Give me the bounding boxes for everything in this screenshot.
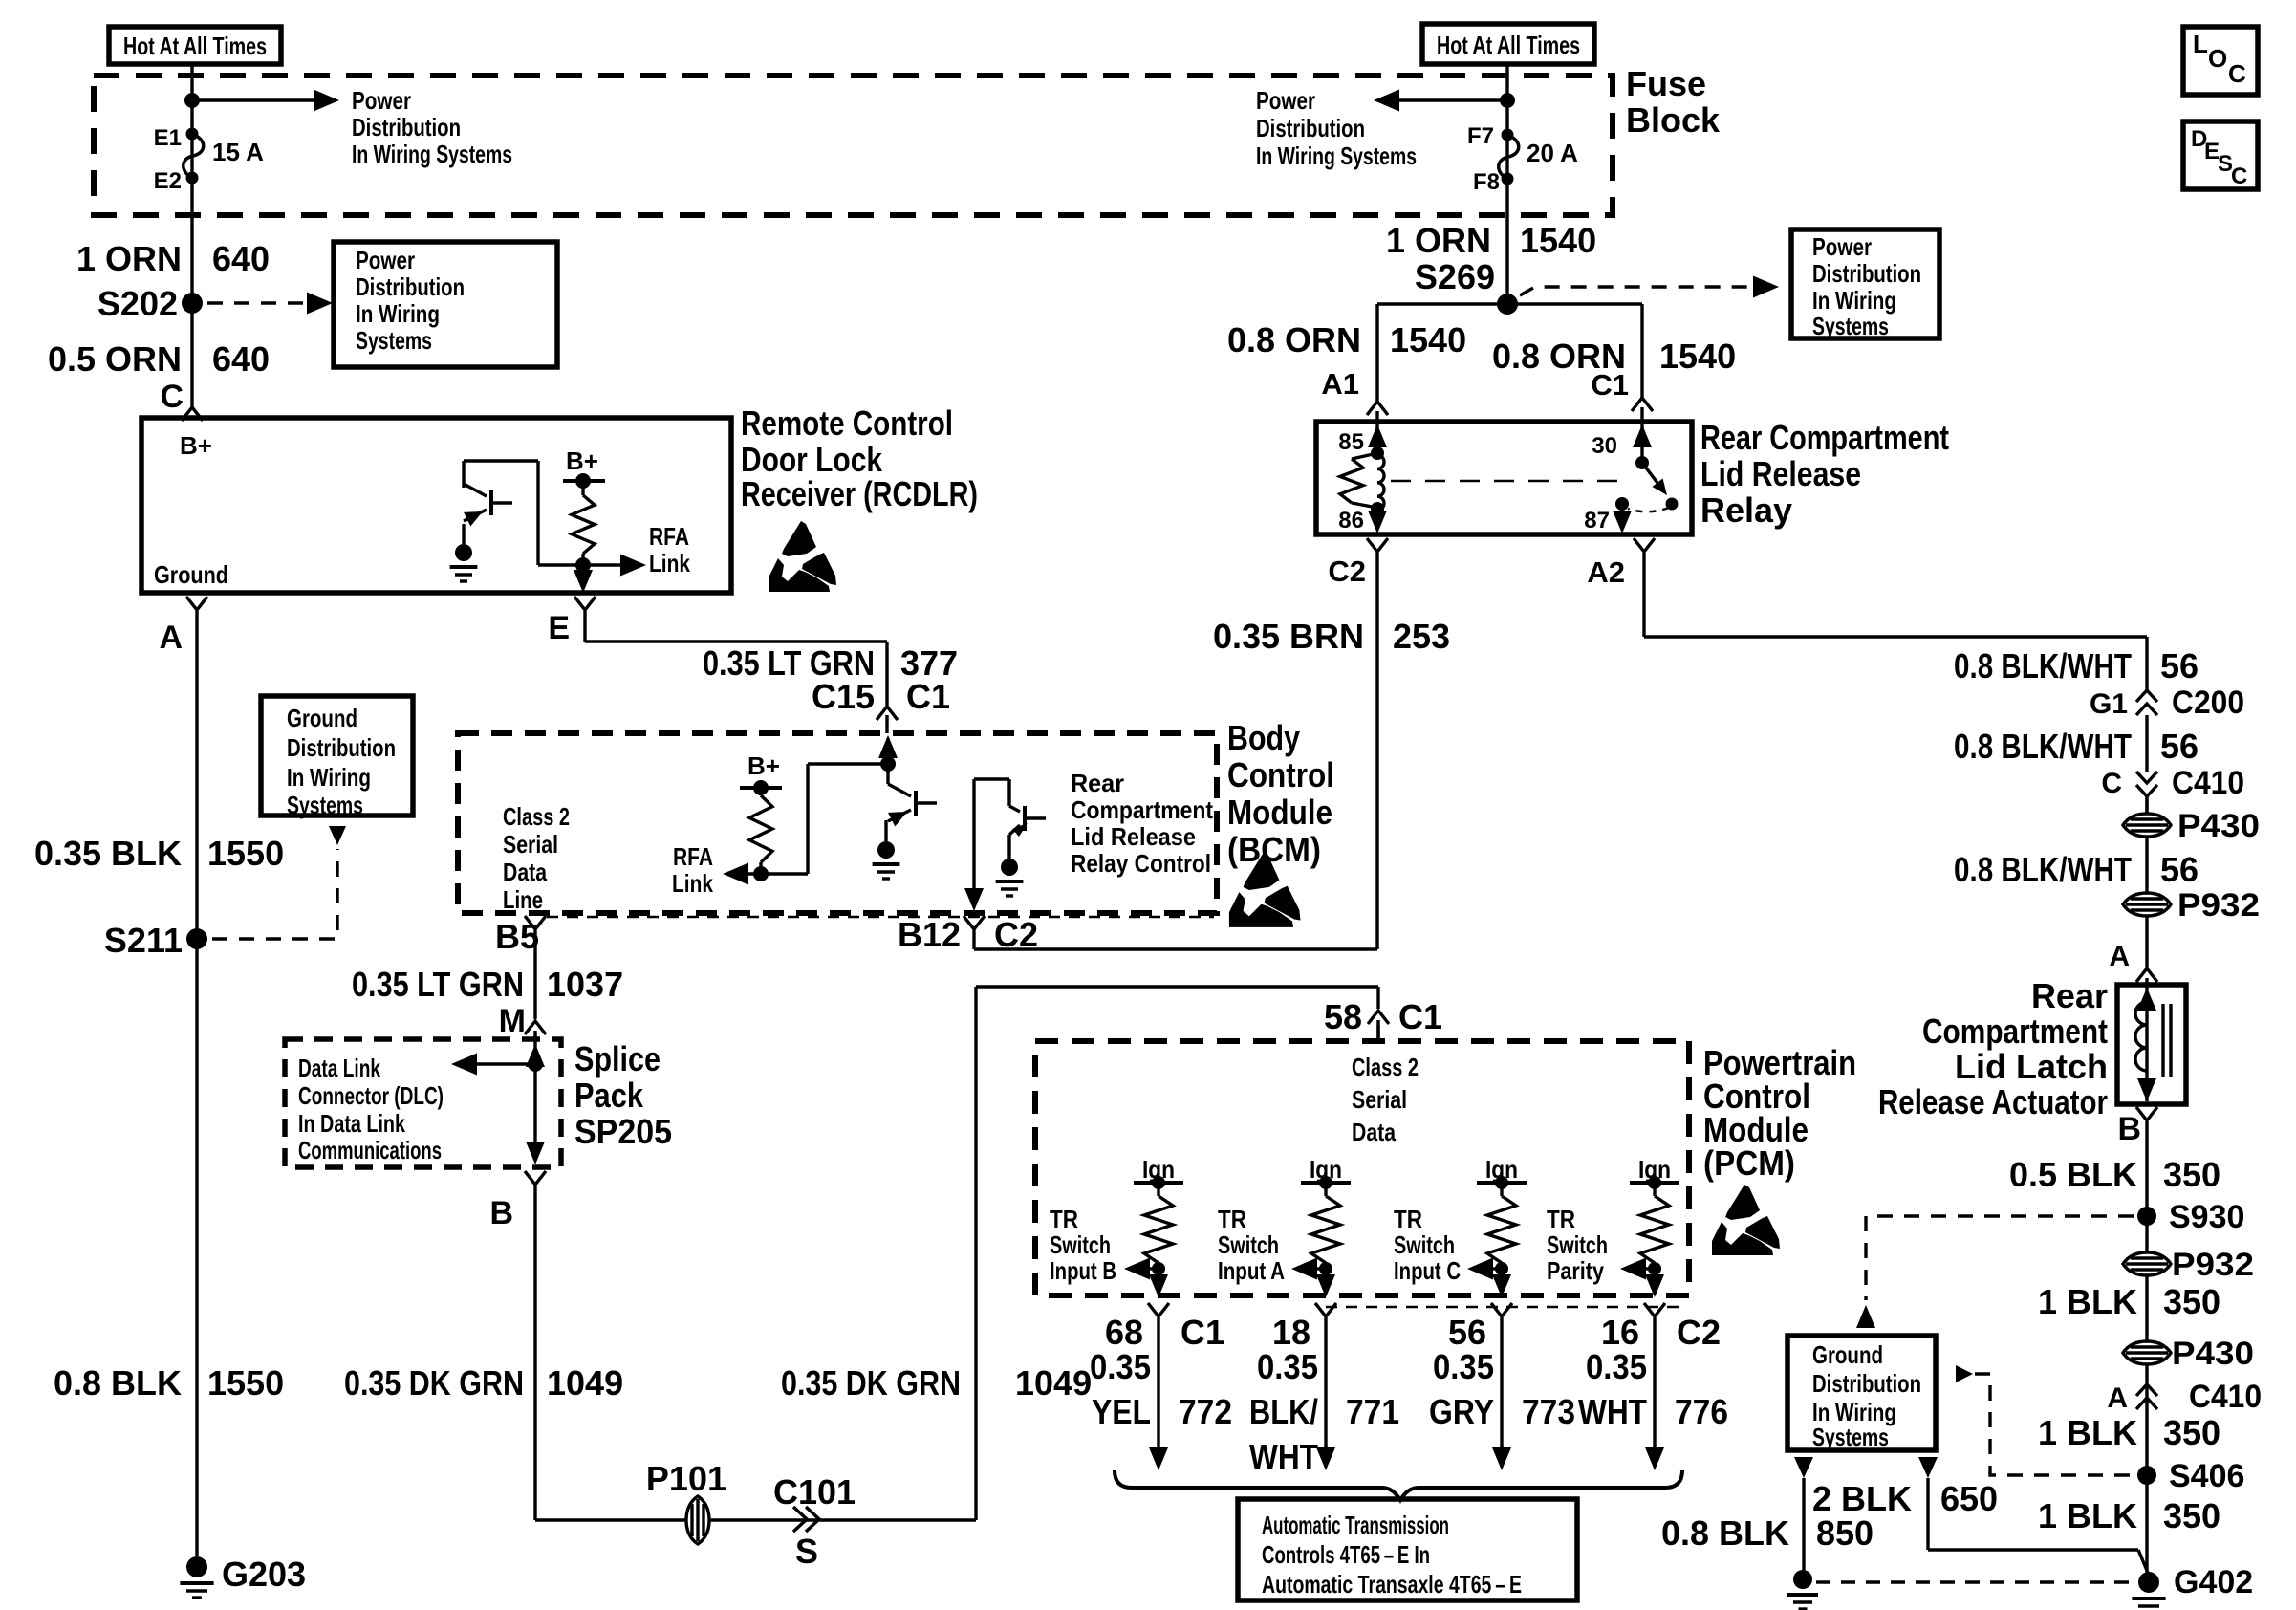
- svg-text:350: 350: [2163, 1413, 2220, 1452]
- svg-text:0.8 BLK/WHT: 0.8 BLK/WHT: [1954, 727, 2132, 766]
- svg-text:640: 640: [212, 239, 270, 278]
- svg-text:F8: F8: [1473, 169, 1500, 195]
- svg-text:S269: S269: [1415, 257, 1495, 296]
- svg-text:Hot At All Times: Hot At All Times: [1437, 31, 1580, 59]
- svg-text:A1: A1: [1321, 367, 1359, 401]
- svg-text:C1: C1: [1591, 368, 1629, 402]
- svg-text:Lid Release: Lid Release: [1700, 454, 1861, 493]
- svg-text:TR: TR: [1547, 1205, 1575, 1233]
- svg-text:Receiver (RCDLR): Receiver (RCDLR): [741, 474, 978, 513]
- svg-text:771: 771: [1346, 1392, 1399, 1431]
- svg-text:S930: S930: [2169, 1199, 2244, 1235]
- svg-text:E1: E1: [154, 125, 182, 151]
- svg-text:1540: 1540: [1659, 337, 1736, 376]
- svg-text:Release Actuator: Release Actuator: [1878, 1082, 2108, 1121]
- svg-text:58: 58: [1324, 997, 1362, 1036]
- svg-text:In Wiring: In Wiring: [1812, 286, 1896, 315]
- svg-text:0.35: 0.35: [1090, 1347, 1151, 1386]
- svg-text:Module: Module: [1227, 793, 1332, 832]
- svg-text:Input C: Input C: [1394, 1256, 1461, 1285]
- svg-text:B: B: [2117, 1111, 2141, 1147]
- svg-text:Door Lock: Door Lock: [741, 440, 883, 479]
- svg-text:RFA: RFA: [649, 522, 689, 551]
- svg-text:C15: C15: [812, 677, 875, 716]
- svg-text:773: 773: [1522, 1392, 1575, 1431]
- svg-text:2 BLK: 2 BLK: [1812, 1479, 1912, 1518]
- svg-text:Switch: Switch: [1050, 1230, 1111, 1259]
- svg-text:Remote Control: Remote Control: [741, 403, 953, 443]
- svg-text:1037: 1037: [547, 965, 623, 1004]
- svg-text:Control: Control: [1227, 755, 1334, 794]
- svg-text:1 ORN: 1 ORN: [1386, 221, 1491, 260]
- svg-text:B+: B+: [747, 751, 780, 780]
- svg-text:850: 850: [1816, 1513, 1874, 1553]
- svg-text:In Data Link: In Data Link: [298, 1109, 405, 1138]
- svg-text:M: M: [499, 1003, 526, 1039]
- svg-text:0.8 BLK: 0.8 BLK: [1661, 1513, 1789, 1553]
- svg-text:0.35 BRN: 0.35 BRN: [1213, 617, 1364, 656]
- svg-text:Data: Data: [503, 858, 547, 886]
- svg-text:L: L: [2193, 30, 2208, 58]
- svg-text:1540: 1540: [1520, 221, 1596, 260]
- svg-text:G1: G1: [2090, 688, 2128, 720]
- svg-text:Connector (DLC): Connector (DLC): [298, 1081, 444, 1110]
- svg-text:P932: P932: [2177, 887, 2260, 924]
- svg-text:C410: C410: [2189, 1379, 2262, 1415]
- svg-text:85: 85: [1338, 429, 1364, 455]
- svg-text:68: 68: [1105, 1313, 1143, 1352]
- svg-text:BLK/: BLK/: [1249, 1392, 1318, 1431]
- svg-text:1 BLK: 1 BLK: [2038, 1496, 2137, 1535]
- svg-text:Switch: Switch: [1547, 1230, 1608, 1259]
- svg-text:Lid Latch: Lid Latch: [1955, 1047, 2108, 1086]
- svg-text:Parity: Parity: [1547, 1256, 1604, 1285]
- svg-text:Power: Power: [352, 86, 411, 115]
- svg-text:0.8 BLK/WHT: 0.8 BLK/WHT: [1954, 850, 2132, 889]
- svg-text:0.5 ORN: 0.5 ORN: [48, 339, 182, 379]
- svg-text:B+: B+: [566, 446, 598, 475]
- svg-text:Hot At All Times: Hot At All Times: [123, 32, 267, 60]
- svg-text:Distribution: Distribution: [1256, 114, 1365, 142]
- svg-text:Line: Line: [503, 885, 543, 914]
- svg-text:C1: C1: [906, 677, 950, 716]
- svg-text:Serial: Serial: [503, 830, 558, 859]
- svg-text:WHT: WHT: [1578, 1392, 1647, 1431]
- svg-text:A2: A2: [1587, 555, 1625, 589]
- svg-text:SP205: SP205: [574, 1112, 672, 1151]
- svg-text:YEL: YEL: [1092, 1392, 1151, 1431]
- svg-text:Controls 4T65 – E In: Controls 4T65 – E In: [1262, 1540, 1430, 1569]
- svg-text:15 A: 15 A: [212, 138, 264, 166]
- svg-text:56: 56: [2160, 850, 2199, 889]
- svg-text:GRY: GRY: [1429, 1392, 1494, 1431]
- svg-text:In Wiring: In Wiring: [356, 299, 440, 328]
- svg-text:Relay: Relay: [1700, 490, 1792, 530]
- svg-text:0.35: 0.35: [1586, 1347, 1647, 1386]
- svg-text:Fuse: Fuse: [1626, 64, 1706, 103]
- svg-text:0.35: 0.35: [1433, 1347, 1494, 1386]
- svg-text:Pack: Pack: [574, 1076, 644, 1115]
- svg-text:C1: C1: [1398, 997, 1442, 1036]
- svg-text:E: E: [548, 610, 570, 646]
- svg-text:(PCM): (PCM): [1703, 1143, 1795, 1183]
- svg-text:56: 56: [2160, 646, 2199, 685]
- svg-text:30: 30: [1592, 433, 1617, 459]
- svg-text:In Wiring Systems: In Wiring Systems: [352, 140, 512, 168]
- svg-text:1 ORN: 1 ORN: [76, 239, 182, 278]
- svg-text:18: 18: [1272, 1313, 1310, 1352]
- svg-text:56: 56: [2160, 727, 2199, 766]
- svg-text:1049: 1049: [1015, 1363, 1092, 1403]
- svg-text:A: A: [159, 620, 183, 656]
- svg-text:20 A: 20 A: [1527, 139, 1578, 167]
- svg-text:Data: Data: [1352, 1118, 1396, 1146]
- svg-text:16: 16: [1601, 1313, 1639, 1352]
- svg-text:Class 2: Class 2: [503, 802, 570, 831]
- svg-text:RFA: RFA: [673, 842, 713, 871]
- svg-text:C410: C410: [2172, 765, 2244, 801]
- svg-text:C1: C1: [1180, 1313, 1224, 1352]
- svg-text:Distribution: Distribution: [1812, 259, 1921, 288]
- svg-text:In Wiring Systems: In Wiring Systems: [1256, 141, 1417, 170]
- svg-text:1540: 1540: [1390, 320, 1466, 359]
- svg-text:86: 86: [1338, 508, 1364, 533]
- svg-text:F7: F7: [1467, 123, 1494, 149]
- svg-text:Compartment: Compartment: [1922, 1012, 2108, 1051]
- svg-text:1550: 1550: [207, 834, 284, 873]
- svg-text:1049: 1049: [547, 1363, 623, 1403]
- svg-text:Power: Power: [356, 246, 415, 274]
- svg-text:A: A: [2109, 941, 2130, 972]
- svg-text:87: 87: [1584, 508, 1610, 533]
- svg-text:Ground: Ground: [1812, 1340, 1883, 1369]
- svg-text:Serial: Serial: [1352, 1085, 1407, 1114]
- svg-text:56: 56: [1448, 1313, 1486, 1352]
- svg-text:Link: Link: [649, 549, 690, 577]
- svg-text:776: 776: [1675, 1392, 1728, 1431]
- svg-text:Automatic Transmission: Automatic Transmission: [1262, 1511, 1449, 1539]
- svg-text:B+: B+: [180, 431, 212, 460]
- svg-text:C: C: [2228, 59, 2246, 88]
- svg-text:Automatic Transaxle 4T65 – E: Automatic Transaxle 4T65 – E: [1262, 1570, 1522, 1599]
- svg-text:0.35 BLK: 0.35 BLK: [34, 834, 182, 873]
- svg-text:TR: TR: [1050, 1205, 1078, 1233]
- svg-text:0.5 BLK: 0.5 BLK: [2009, 1155, 2137, 1194]
- svg-text:B5: B5: [495, 917, 539, 956]
- svg-text:Systems: Systems: [287, 791, 363, 819]
- svg-text:C2: C2: [1328, 555, 1366, 588]
- svg-text:Ground: Ground: [154, 560, 228, 589]
- svg-text:253: 253: [1393, 617, 1450, 656]
- svg-text:G402: G402: [2174, 1564, 2253, 1600]
- svg-text:Rear Compartment: Rear Compartment: [1700, 418, 1949, 457]
- svg-text:E2: E2: [154, 168, 182, 194]
- svg-text:0.8 BLK: 0.8 BLK: [54, 1363, 182, 1403]
- svg-text:772: 772: [1179, 1392, 1232, 1431]
- svg-text:Compartment: Compartment: [1071, 795, 1213, 824]
- svg-text:650: 650: [1940, 1479, 1998, 1518]
- svg-text:TR: TR: [1394, 1205, 1422, 1233]
- svg-text:A: A: [2107, 1382, 2128, 1414]
- svg-text:640: 640: [212, 339, 270, 379]
- svg-text:Distribution: Distribution: [356, 272, 465, 301]
- svg-text:Power: Power: [1256, 86, 1315, 115]
- svg-text:(BCM): (BCM): [1227, 830, 1321, 869]
- svg-text:Switch: Switch: [1218, 1230, 1279, 1259]
- svg-text:O: O: [2208, 44, 2227, 73]
- svg-text:Distribution: Distribution: [287, 733, 396, 762]
- svg-text:1 BLK: 1 BLK: [2038, 1413, 2137, 1452]
- svg-text:Block: Block: [1626, 100, 1721, 140]
- svg-text:G203: G203: [222, 1555, 306, 1594]
- svg-text:0.35 DK GRN: 0.35 DK GRN: [781, 1363, 961, 1403]
- svg-text:Communications: Communications: [298, 1136, 442, 1164]
- svg-text:Splice: Splice: [574, 1039, 661, 1078]
- svg-text:Relay Control: Relay Control: [1071, 849, 1211, 878]
- svg-text:S: S: [795, 1532, 818, 1571]
- svg-text:C: C: [160, 379, 184, 415]
- svg-text:Power: Power: [1812, 232, 1872, 261]
- svg-text:1 BLK: 1 BLK: [2038, 1282, 2137, 1321]
- svg-text:In Wiring: In Wiring: [287, 763, 371, 792]
- svg-text:C: C: [2231, 163, 2247, 189]
- svg-text:S211: S211: [104, 921, 183, 960]
- svg-text:B: B: [489, 1195, 513, 1231]
- svg-text:0.8 BLK/WHT: 0.8 BLK/WHT: [1954, 646, 2132, 685]
- svg-text:Class 2: Class 2: [1352, 1053, 1419, 1081]
- svg-text:350: 350: [2163, 1282, 2220, 1321]
- svg-text:Rear: Rear: [1071, 769, 1124, 797]
- svg-text:350: 350: [2163, 1155, 2220, 1194]
- svg-text:S202: S202: [97, 284, 178, 323]
- svg-text:Distribution: Distribution: [352, 113, 461, 141]
- svg-text:Rear: Rear: [2031, 976, 2108, 1015]
- svg-text:TR: TR: [1218, 1205, 1246, 1233]
- svg-text:Link: Link: [672, 869, 713, 898]
- svg-text:Data Link: Data Link: [298, 1054, 380, 1082]
- svg-text:Switch: Switch: [1394, 1230, 1455, 1259]
- svg-text:1550: 1550: [207, 1363, 284, 1403]
- svg-text:Input A: Input A: [1218, 1256, 1285, 1285]
- svg-text:P101: P101: [646, 1459, 726, 1498]
- svg-text:Distribution: Distribution: [1812, 1369, 1921, 1398]
- svg-text:B12: B12: [898, 915, 961, 954]
- svg-text:0.35 DK GRN: 0.35 DK GRN: [344, 1363, 524, 1403]
- svg-text:Input B: Input B: [1050, 1256, 1116, 1285]
- svg-text:350: 350: [2163, 1496, 2220, 1535]
- svg-text:P430: P430: [2177, 808, 2260, 844]
- svg-text:P430: P430: [2172, 1336, 2254, 1372]
- svg-text:C2: C2: [1677, 1313, 1721, 1352]
- svg-text:0.8 ORN: 0.8 ORN: [1227, 320, 1361, 359]
- svg-text:Systems: Systems: [1812, 312, 1889, 340]
- svg-text:0.35 LT GRN: 0.35 LT GRN: [352, 965, 524, 1004]
- svg-text:Body: Body: [1227, 718, 1300, 757]
- svg-text:S406: S406: [2169, 1458, 2244, 1494]
- svg-text:C200: C200: [2172, 685, 2244, 721]
- svg-text:Systems: Systems: [1812, 1423, 1889, 1451]
- svg-text:0.35: 0.35: [1257, 1347, 1318, 1386]
- svg-text:C: C: [2101, 768, 2122, 799]
- svg-text:Lid Release: Lid Release: [1071, 822, 1196, 851]
- svg-text:Ground: Ground: [287, 704, 357, 732]
- svg-text:C101: C101: [773, 1472, 856, 1512]
- svg-text:WHT: WHT: [1249, 1437, 1318, 1476]
- svg-text:Systems: Systems: [356, 326, 432, 355]
- svg-text:P932: P932: [2172, 1247, 2254, 1283]
